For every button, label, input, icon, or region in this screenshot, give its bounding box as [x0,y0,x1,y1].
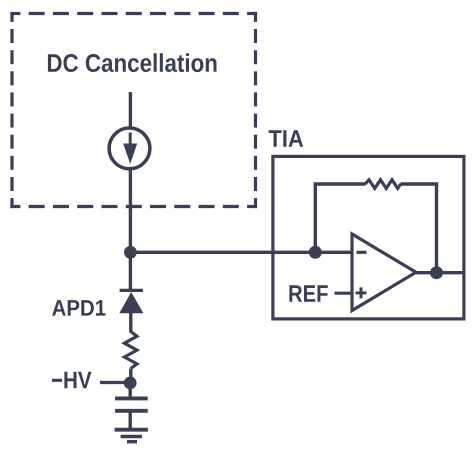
label: TIA [269,130,304,147]
resistor RF (feedback) [365,180,401,189]
op-amp U1 [352,234,416,311]
wire (current source to node A) [129,170,132,253]
TIA block box [273,156,464,319]
wire (op-amp output to TIA box edge) [416,271,464,274]
wire (node A down to diode) [129,252,132,290]
photodiode APD1 [119,290,143,313]
wire (REF to non-inverting input) [335,292,353,295]
wire (diode to resistor) [129,313,132,333]
label: APD1 [52,300,105,316]
wire (resistor to -HV node) [129,369,132,383]
current source I1 [109,128,150,169]
ground [115,430,148,442]
wire (-HV lead) [100,381,130,384]
node B (feedback tap junction dot) [309,246,322,259]
node C (output junction dot) [430,266,443,279]
wire (feedback right side down to output) [401,184,437,273]
node A (junction dot) [124,246,137,259]
node D (-HV junction dot) [124,377,137,390]
wire (top stub into current source) [129,92,132,127]
label: REF [289,285,327,302]
label: -HV [52,372,92,389]
label: DC Cancellation [48,53,217,72]
capacitor C1 [115,398,148,410]
wire (feedback loop left and top) [315,184,365,252]
resistor R1 (series, vertical) [124,332,137,369]
wire (node D to capacitor) [128,383,131,397]
DC Cancellation block (dashed box) [10,12,257,208]
wire (node A to op-amp inverting input) [130,251,353,254]
wire (capacitor to ground) [128,411,131,428]
